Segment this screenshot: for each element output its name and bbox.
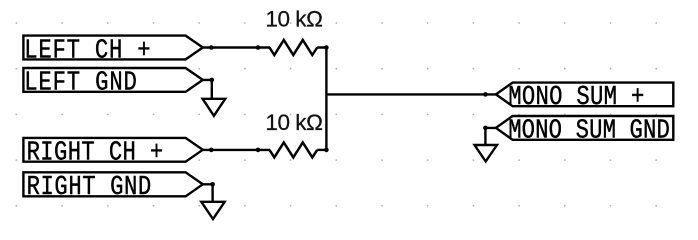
- wire: [485, 128, 496, 145]
- svg-text:RIGHT GND: RIGHT GND: [27, 172, 152, 203]
- resistor R2 10k: [270, 142, 318, 157]
- junction dot: [210, 182, 215, 187]
- junction dot: [209, 45, 214, 50]
- wire: [203, 149, 270, 151]
- svg-text:MONO SUM GND: MONO SUM GND: [508, 116, 670, 147]
- net flag RIGHT CH +: [23, 138, 202, 169]
- wire: [317, 48, 326, 150]
- junction dot: [256, 45, 261, 50]
- wire: [317, 149, 326, 151]
- junction dot: [324, 45, 329, 50]
- wire node SUM: [326, 93, 496, 95]
- wire: [203, 46, 270, 48]
- wire: [203, 184, 213, 202]
- junction dot: [324, 148, 329, 153]
- ground: [201, 202, 224, 219]
- junction dot: [210, 78, 215, 83]
- svg-text:LEFT CH +: LEFT CH +: [24, 35, 150, 66]
- svg-text:RIGHT CH +: RIGHT CH +: [27, 138, 164, 169]
- junction dot: [209, 148, 214, 153]
- svg-text:MONO SUM +: MONO SUM +: [508, 82, 644, 113]
- net flag RIGHT GND: [23, 172, 202, 203]
- svg-text:10 kΩ: 10 kΩ: [265, 110, 323, 135]
- junction dot: [256, 148, 261, 153]
- net flag LEFT CH +: [23, 35, 202, 66]
- svg-text:LEFT GND: LEFT GND: [24, 68, 137, 99]
- resistor R1 10k: [270, 40, 318, 55]
- junction dot: [483, 92, 488, 97]
- net flag MONO SUM +: [496, 82, 673, 113]
- svg-text:10 kΩ: 10 kΩ: [265, 6, 323, 31]
- net flag MONO SUM GND: [496, 116, 673, 147]
- junction dot: [483, 126, 488, 131]
- ground: [203, 99, 226, 116]
- wire: [203, 80, 212, 99]
- net flag LEFT GND: [23, 68, 202, 99]
- ground: [475, 145, 498, 161]
